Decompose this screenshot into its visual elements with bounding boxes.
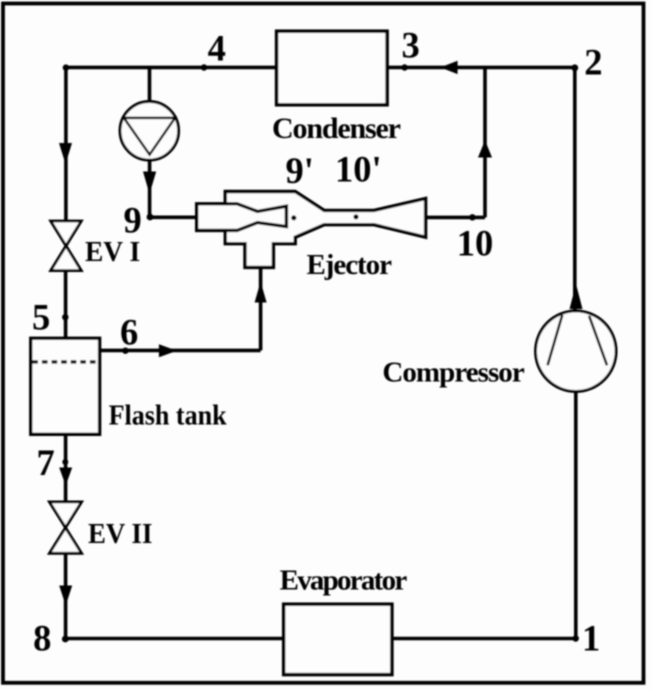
svg-text:9': 9' bbox=[286, 150, 314, 191]
svg-text:10': 10' bbox=[335, 149, 382, 190]
svg-text:Condenser: Condenser bbox=[272, 112, 401, 145]
svg-text:Evaporator: Evaporator bbox=[280, 564, 408, 596]
svg-text:Compressor: Compressor bbox=[382, 356, 524, 388]
svg-text:5: 5 bbox=[32, 297, 50, 338]
svg-text:4: 4 bbox=[208, 28, 226, 69]
svg-text:8: 8 bbox=[33, 618, 51, 659]
svg-text:EV II: EV II bbox=[88, 519, 152, 550]
svg-text:3: 3 bbox=[402, 25, 420, 66]
svg-text:2: 2 bbox=[584, 42, 602, 83]
svg-text:Ejector: Ejector bbox=[307, 249, 393, 281]
svg-text:7: 7 bbox=[37, 442, 55, 483]
svg-text:EV I: EV I bbox=[85, 237, 140, 268]
svg-text:1: 1 bbox=[582, 618, 600, 659]
svg-text:Flash tank: Flash tank bbox=[109, 400, 227, 431]
svg-text:9: 9 bbox=[124, 200, 142, 241]
svg-text:10: 10 bbox=[457, 223, 494, 264]
svg-text:6: 6 bbox=[120, 312, 138, 353]
